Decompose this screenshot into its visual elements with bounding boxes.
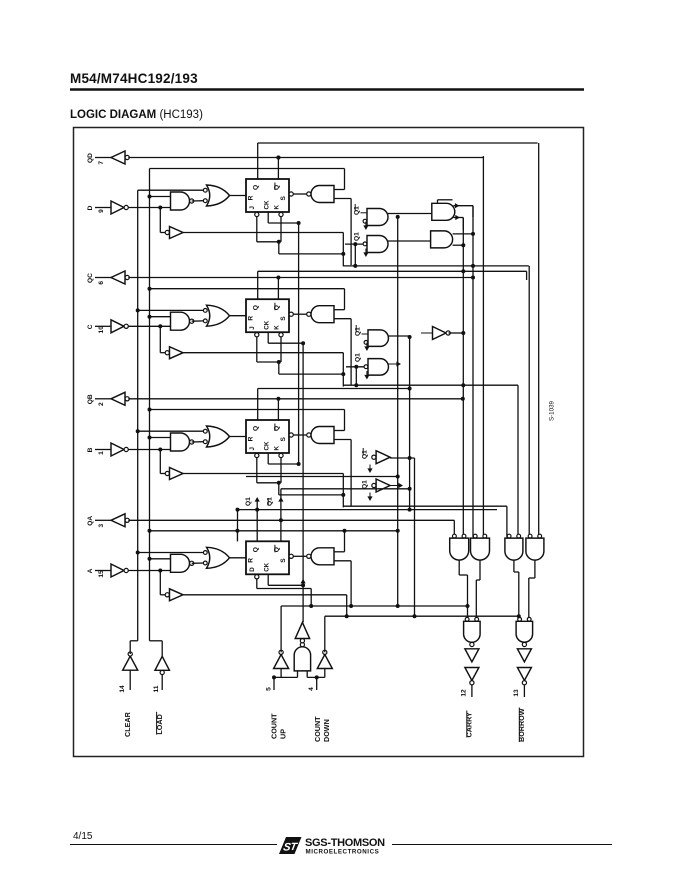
wire top loop (FF1 Q to borrow riser): [258, 142, 538, 144]
wire J pin drop FF3: [255, 453, 281, 484]
wire G1a output to G1c: [388, 213, 432, 215]
pin 13 BORROW stub: [513, 685, 524, 697]
wire pin 4 to count-down: [307, 669, 325, 691]
inverter count-down: [317, 650, 332, 668]
wire riser to gate B3 left: [506, 506, 508, 537]
input buffer B pin 1: [87, 443, 128, 456]
wire riser R-mid1 (to count-up line): [396, 215, 400, 608]
wire J pin drop FF1: [255, 212, 281, 243]
svg-text:Q1: Q1: [267, 497, 274, 506]
wire NAND output to OR input: [192, 562, 204, 564]
label CLEAR: [123, 711, 132, 737]
wire CLEAR bus to OR top input: [138, 189, 204, 191]
svg-text:Q: Q: [253, 305, 260, 310]
inverter (inverted B data): [165, 468, 183, 480]
svg-text:CLEAR: CLEAR: [123, 711, 132, 737]
wire count-down clock bus: [302, 343, 304, 622]
set NAND gate (left-facing) for FF2: [307, 306, 334, 323]
wire set-NAND upper input: [334, 289, 345, 310]
wire LOAD bus vertical: [149, 169, 151, 641]
wire D buffer output to NAND: [128, 206, 170, 233]
wire LOAD bus to NAND top input: [148, 195, 171, 199]
svg-text:BORROW: BORROW: [517, 708, 526, 742]
inverter carry 1: [465, 649, 479, 662]
svg-text:9: 9: [98, 209, 105, 213]
wire OR output to R pin: [230, 195, 247, 197]
AND gate B4 (borrow term 2): [526, 534, 544, 560]
wire band stage1 data: [343, 264, 529, 268]
wire S pin to set-NAND output: [289, 433, 307, 437]
svg-text:CK: CK: [264, 320, 271, 329]
wire load-set feed line stage 1: [150, 168, 345, 170]
flip-flop FF1 (QD): [246, 179, 289, 212]
svg-text:SGS-THOMSON: SGS-THOMSON: [305, 837, 385, 849]
wire Q riser FF1: [257, 143, 259, 179]
inverter (inverted A data): [165, 589, 183, 601]
svg-text:Q1: Q1: [362, 450, 369, 459]
output buffer QC pin 6: [87, 271, 129, 285]
label CARRY: [465, 711, 474, 738]
wire A buffer output to NAND: [128, 569, 170, 595]
svg-text:S: S: [280, 316, 287, 321]
wire G2e output: [449, 331, 466, 335]
wire CLEAR bus to OR top input: [136, 429, 204, 433]
wire Q1 distribution lower: [236, 508, 498, 512]
svg-text:QD: QD: [87, 153, 94, 163]
wire load-set feed line stage 3: [148, 408, 345, 412]
AND gate B2 (carry term 2): [471, 534, 490, 560]
wire Q riser FF2: [257, 271, 259, 299]
AND gate G2b (Q1 enable, stage 2): [346, 353, 388, 387]
inverter borrow 2: [517, 668, 531, 685]
wire riser to gate B2 left: [472, 206, 474, 538]
svg-text:15: 15: [98, 570, 105, 578]
pin 14 CLEAR stub: [119, 670, 130, 692]
logo SGS-THOMSON ST symbol: [279, 837, 302, 854]
footer page number 4/15: [73, 831, 93, 842]
svg-text:S: S: [280, 196, 287, 201]
wire CK pin to clock bus FF4: [268, 574, 306, 587]
output buffer QD pin 7: [87, 151, 129, 165]
wire OR output to R pin: [230, 557, 247, 559]
wire S pin to set-NAND output: [289, 312, 307, 316]
svg-text:MICROELECTRONICS: MICROELECTRONICS: [306, 849, 380, 856]
header title M54/M74HC192/193: [70, 71, 584, 90]
logo SGS-THOMSON text: [305, 837, 385, 856]
OR gate with inverted inputs (reset driver): [203, 185, 229, 206]
wire J/K tie to data line FF3: [279, 483, 346, 497]
wire band stage3 data: [343, 505, 507, 507]
wire stage4 set feed: [235, 529, 399, 542]
wire NAND output to OR input: [192, 200, 204, 202]
wire riser to gate B1 right: [462, 218, 464, 538]
svg-text:LOGIC DIAGAM (HC193): LOGIC DIAGAM (HC193): [70, 109, 203, 121]
wire CLEAR bus to OR top input: [136, 308, 204, 312]
svg-text:Q1: Q1: [354, 206, 361, 215]
svg-text:4: 4: [308, 687, 315, 691]
svg-text:Q1: Q1: [354, 232, 361, 241]
svg-text:6: 6: [98, 281, 105, 285]
svg-text:C: C: [87, 324, 94, 329]
AND gate B1 (carry term 1): [450, 534, 469, 560]
wire count-up line: [281, 604, 469, 652]
wire Q riser FF3: [257, 389, 259, 421]
OR gate with inverted inputs (reset driver): [203, 305, 229, 326]
svg-text:S-1039: S-1039: [549, 400, 556, 421]
wire set-NAND lower input: [334, 319, 351, 386]
label S-1039 drawing number: [549, 400, 556, 421]
svg-text:DOWN: DOWN: [322, 719, 331, 742]
svg-text:3: 3: [98, 523, 105, 527]
wire B4 output to borrow gate: [529, 560, 535, 617]
svg-text:COUNT: COUNT: [313, 716, 322, 742]
svg-text:R: R: [248, 436, 255, 441]
wire G2b output arrow: [389, 361, 402, 366]
wire NAND output to OR input: [192, 320, 204, 322]
wire band stage1 Q: [258, 269, 527, 280]
svg-text:Q: Q: [253, 426, 260, 431]
svg-text:Q1: Q1: [362, 480, 369, 489]
NAND gate (load data D): [171, 192, 194, 210]
wire Qbar riser FF1: [276, 156, 280, 180]
wire G3b output arrow: [390, 483, 403, 488]
OR gate with inverted inputs (reset driver): [203, 547, 229, 568]
wire K pin drop FF1: [279, 212, 283, 241]
svg-text:K: K: [274, 446, 281, 451]
wire set-NAND lower input: [334, 561, 353, 608]
svg-text:S: S: [280, 558, 287, 563]
wire OR output to R pin: [230, 315, 247, 317]
wire C buffer output to NAND: [128, 324, 170, 352]
AND gate borrow output: [516, 617, 533, 646]
AND gate G1a (Qbar1 enable, stage 1): [354, 204, 389, 230]
flip-flop FF3 (QB): [246, 420, 289, 453]
NAND gate (load data A): [171, 554, 194, 572]
inverter (inverted D data): [165, 227, 183, 239]
wire K pin drop FF2: [279, 333, 283, 362]
inverter (inverted C data): [165, 347, 183, 359]
wire inverter output across to vertical drop: [183, 353, 343, 387]
wire QC output line: [128, 276, 475, 280]
svg-text:10: 10: [98, 326, 105, 334]
svg-text:5: 5: [266, 687, 273, 691]
inverter CLEAR input: [123, 652, 138, 670]
AND gate count clock: [294, 643, 310, 671]
wire G3a output to risers: [390, 456, 414, 460]
set NAND gate (left-facing) for FF1: [307, 186, 334, 203]
inverter G2e (stage2): [421, 327, 450, 340]
wire inverter output across to vertical drop: [183, 474, 343, 508]
wire D pin drop FF4: [255, 575, 314, 608]
svg-text:CK: CK: [264, 441, 271, 450]
svg-text:1: 1: [98, 451, 105, 455]
inverter G3b (Q1, stage 3): [362, 479, 391, 501]
OR gate with inverted inputs (reset driver): [203, 426, 229, 447]
svg-text:UP: UP: [279, 729, 288, 739]
wire CK pin to clock bus FF3: [268, 453, 300, 466]
wire set-NAND upper input: [334, 410, 345, 431]
svg-text:S: S: [280, 437, 287, 442]
svg-text:QC: QC: [87, 273, 94, 283]
svg-text:J: J: [249, 326, 256, 330]
svg-text:CK: CK: [264, 562, 271, 571]
wire S pin to set-NAND output: [289, 554, 307, 558]
AND gate G2a (Qbar1 enable, stage 2): [355, 325, 389, 351]
label BORROW: [517, 708, 526, 743]
wire B3 output to borrow gate: [514, 560, 519, 617]
svg-text:Q1: Q1: [355, 327, 362, 336]
set NAND gate (left-facing) for FF3: [307, 427, 334, 444]
wire QA output line: [128, 519, 454, 521]
input buffer C pin 10: [87, 320, 128, 334]
wire CLEAR riser jog: [130, 641, 138, 654]
svg-text:Q: Q: [253, 547, 260, 552]
wire FF4 feed stub: [237, 510, 239, 542]
wire Qbar riser FF2: [276, 276, 280, 300]
AND gate B3 (borrow term 1): [505, 534, 523, 560]
svg-text:COUNT: COUNT: [270, 713, 279, 739]
pin 12 CARRY stub: [461, 685, 472, 697]
inverter G3a (Qbar1, stage 3): [362, 448, 391, 473]
wire B buffer output to NAND: [128, 448, 170, 474]
flip-flop FF2 (QC): [246, 299, 289, 332]
svg-text:7: 7: [98, 161, 105, 165]
wire riser to gate B4 left: [528, 266, 530, 537]
svg-text:Q: Q: [253, 185, 260, 190]
label LOAD: [155, 712, 164, 735]
AND gate G1d (stage1 borrow): [431, 231, 453, 248]
wire G1c outputs to risers: [454, 203, 474, 230]
svg-text:14: 14: [119, 685, 126, 693]
svg-text:K: K: [274, 205, 281, 210]
wire CLEAR bus vertical: [137, 190, 139, 641]
wire inverter output across to vertical drop: [183, 595, 349, 618]
svg-text:R: R: [248, 316, 255, 321]
svg-text:J: J: [249, 206, 256, 210]
wire J/K tie to data line FF2: [279, 362, 346, 376]
NAND gate (load data C): [171, 312, 194, 330]
wire pin 5 to count-up: [266, 669, 298, 691]
wire LOAD riser jog: [150, 641, 163, 657]
inverter count clock: [295, 622, 309, 642]
svg-text:B: B: [87, 447, 94, 452]
inverter borrow 1: [517, 649, 531, 662]
svg-text:2: 2: [98, 402, 105, 406]
wire set-NAND lower input: [334, 199, 351, 266]
wire riser to gate B4 right: [538, 143, 540, 537]
svg-text:Q1: Q1: [355, 353, 362, 362]
svg-text:12: 12: [461, 689, 468, 697]
svg-text:D: D: [87, 205, 94, 210]
svg-text:M54/M74HC192/193: M54/M74HC192/193: [70, 71, 198, 86]
output buffer QA pin 3: [87, 514, 129, 528]
label COUNT DOWN: [313, 716, 331, 742]
svg-text:4/15: 4/15: [73, 831, 93, 842]
inverter LOAD input: [155, 656, 169, 674]
input buffer D pin 9: [87, 201, 128, 214]
svg-text:R: R: [248, 558, 255, 563]
svg-text:QB: QB: [87, 394, 94, 404]
wire G1b output to G1d: [388, 240, 431, 242]
svg-text:J: J: [249, 447, 256, 451]
label COUNT UP: [270, 713, 288, 739]
wire band stage2 Q: [258, 387, 412, 391]
svg-text:D: D: [249, 567, 256, 572]
node Q1-bar (QA complement net): [267, 489, 284, 542]
wire riser to gate B1 left: [453, 520, 455, 537]
input buffer A pin 15: [87, 564, 128, 578]
wire K pin drop FF3: [279, 453, 283, 482]
wire QD output line: [128, 157, 483, 159]
svg-text:13: 13: [513, 689, 520, 697]
wire QB output line: [128, 397, 465, 401]
wire CLEAR bus to OR top input: [136, 551, 204, 555]
NAND gate (load data B): [171, 433, 194, 451]
wire G2a output to riser: [389, 335, 412, 339]
svg-text:CK: CK: [264, 200, 271, 209]
wire riser R-mid2 (Q1 gating): [409, 337, 411, 510]
wire Qbar riser FF3: [276, 397, 280, 420]
node Q1 (QA true output net): [245, 497, 260, 541]
output buffer QB pin 2: [87, 392, 129, 406]
svg-text:R: R: [248, 195, 255, 200]
diagram border frame: [74, 128, 584, 757]
wire J pin drop FF2: [255, 333, 281, 364]
wire count-down line: [325, 614, 521, 652]
wire riser R-mid3 (to count-down line): [413, 458, 417, 618]
AND gate G1c (stage1 carry): [432, 200, 455, 221]
inverter count-up: [274, 650, 289, 668]
AND gate G1b (Q1 enable, stage 1): [345, 232, 388, 268]
inverter carry 2: [465, 668, 479, 685]
wire Qbar1 distribution: [281, 487, 412, 491]
wire CK pin to clock bus FF2: [268, 332, 305, 345]
svg-text:A: A: [87, 568, 94, 573]
wire riser to gate B2 right (QD): [484, 300, 486, 537]
svg-text:CARRY: CARRY: [465, 712, 474, 737]
section title LOGIC DIAGAM (HC193): [70, 109, 203, 121]
wire load-set feed line stage 4: [148, 529, 345, 533]
wire B2 output to carry gate: [476, 560, 480, 617]
wire NAND output to OR input: [192, 441, 204, 443]
wire B1 output to carry gate: [459, 560, 467, 617]
svg-text:QA: QA: [87, 516, 94, 526]
wire G1d outputs to risers: [453, 232, 475, 247]
flip-flop FF4 (QA): [246, 541, 289, 574]
wire QD line corner down: [276, 156, 483, 538]
wire set-NAND upper input: [334, 169, 345, 190]
wire count-up clock bus: [298, 223, 300, 464]
wire CK pin to clock bus FF1: [268, 212, 300, 225]
svg-text:11: 11: [153, 685, 160, 692]
svg-text:K: K: [274, 325, 281, 330]
wire S pin to set-NAND output: [289, 192, 307, 196]
wire OR output to R pin: [230, 436, 247, 438]
wire inverter output across to vertical drop: [183, 233, 343, 267]
wire band stage2 data: [343, 383, 518, 537]
wire set-NAND upper input: [334, 531, 345, 552]
wire set-NAND lower input: [334, 440, 351, 507]
set NAND gate (left-facing) for FF4: [307, 548, 334, 565]
footer rule: [70, 844, 612, 846]
wire LOAD bus to NAND top input: [148, 436, 171, 440]
wire LOAD bus to NAND top input: [148, 315, 171, 319]
svg-text:Q1: Q1: [245, 497, 252, 506]
wire J/K tie to data line FF1: [279, 242, 346, 256]
wire band stage3 aux: [246, 475, 400, 479]
AND gate carry output: [464, 617, 481, 646]
wire load-set feed line stage 2: [148, 287, 345, 291]
pin 11 LOAD stub: [153, 675, 162, 693]
wire LOAD bus to NAND top input: [148, 557, 171, 561]
